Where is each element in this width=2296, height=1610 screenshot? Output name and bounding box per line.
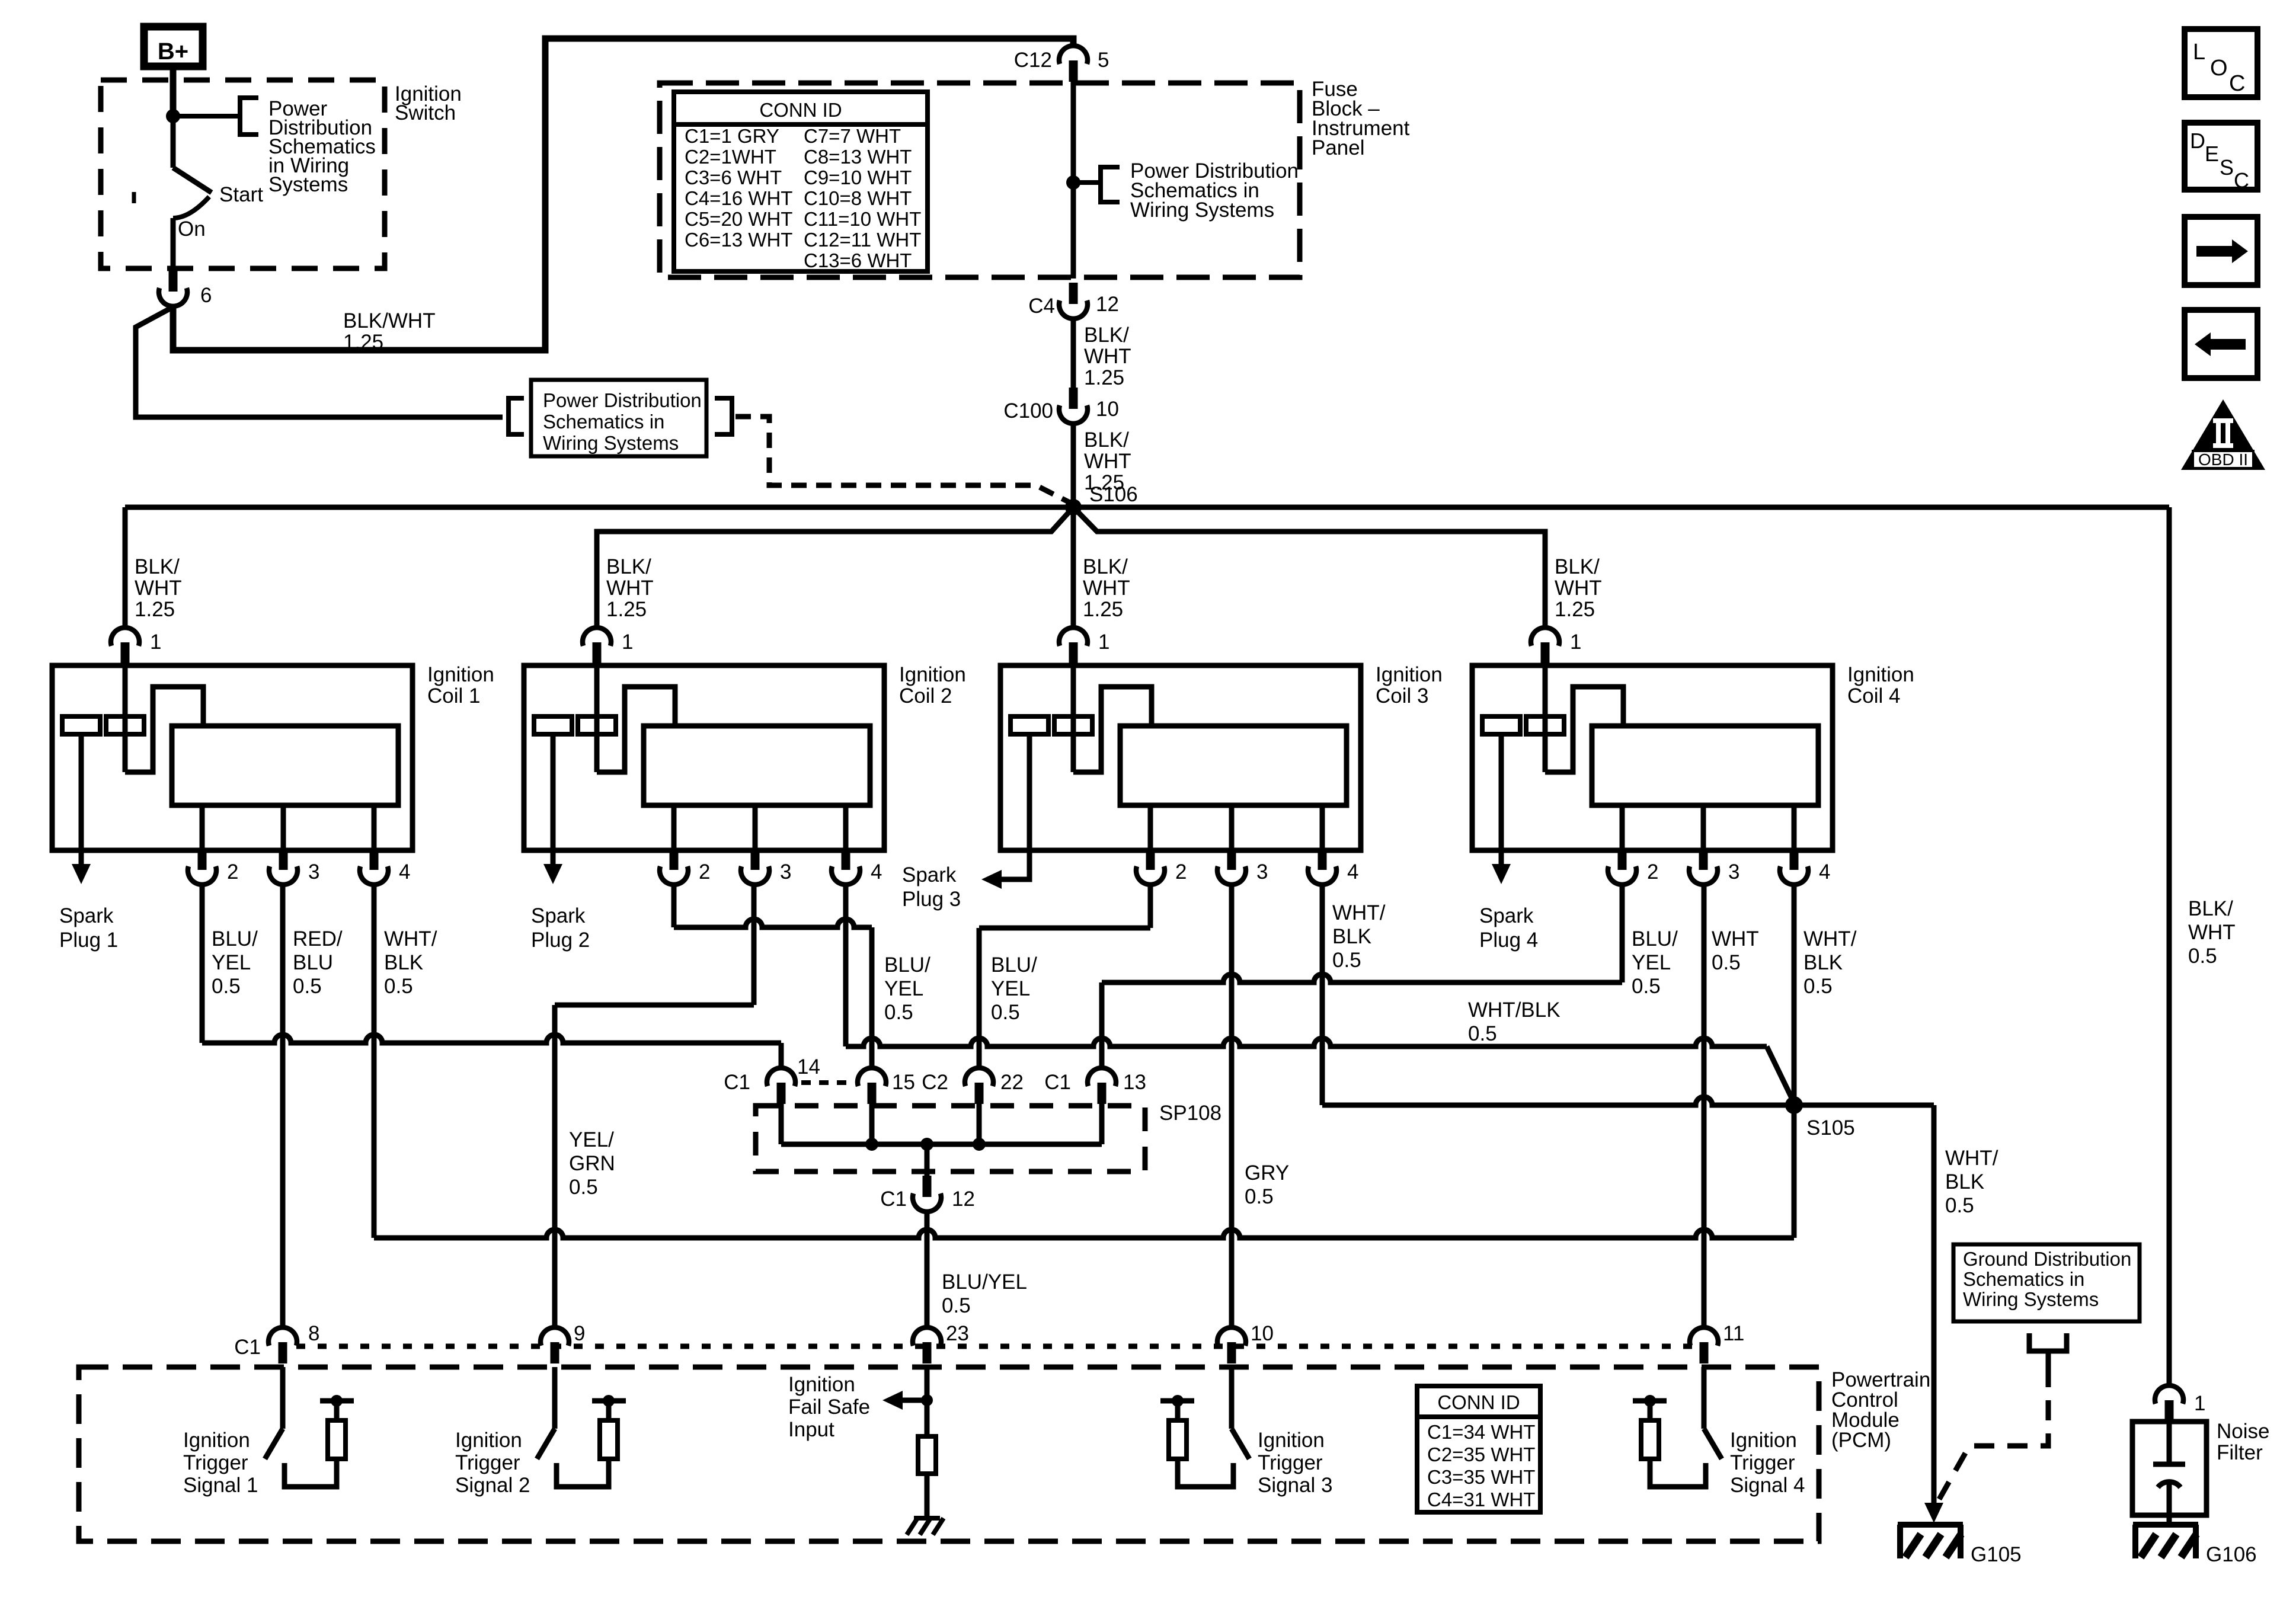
B+ battery terminal box: [144, 27, 203, 66]
svg-text:C6=13 WHT: C6=13 WHT: [685, 229, 792, 251]
svg-text:Ignition: Ignition: [1376, 663, 1443, 686]
connector C1 pin 13: [1098, 1083, 1107, 1104]
spark plug 3 arrow wire: [1002, 734, 1029, 879]
svg-text:Plug 4: Plug 4: [1479, 929, 1538, 952]
svg-text:0.5: 0.5: [991, 1001, 1020, 1024]
svg-text:Ignition: Ignition: [1847, 663, 1914, 686]
spark plug 2 arrow wire: [551, 734, 556, 864]
svg-text:2: 2: [699, 860, 710, 884]
ignition coil 3 primary connector rects: [1011, 716, 1048, 734]
wire coil1 pin2 down: [200, 885, 205, 1043]
wire coil2 pin2 down: [671, 885, 677, 927]
connector pin 3 ignition coil 2: [753, 805, 758, 850]
connector pin 4 ignition coil 1: [372, 805, 377, 850]
power distribution schematics box: [531, 380, 706, 456]
svg-text:G106: G106: [2206, 1543, 2257, 1566]
ignition trigger signal 2 resistor: [600, 1420, 618, 1459]
CONN ID table box: [674, 92, 928, 271]
svg-text:C1: C1: [1044, 1071, 1071, 1094]
ignition coil 3 pin1 internal wire: [1071, 665, 1076, 772]
ground distribution schematics box: [1953, 1244, 2140, 1321]
svg-text:C3=35 WHT: C3=35 WHT: [1427, 1466, 1535, 1488]
svg-text:0.5: 0.5: [1803, 975, 1833, 998]
svg-text:WHT/: WHT/: [1803, 927, 1857, 950]
svg-text:WHT: WHT: [1084, 450, 1131, 473]
wire S105 leg down: [1792, 1105, 1797, 1238]
wire junction to bracket (fuse block): [1073, 180, 1101, 185]
svg-text:1.25: 1.25: [135, 598, 175, 621]
svg-text:C: C: [2234, 168, 2249, 193]
svg-text:1: 1: [622, 630, 633, 654]
svg-text:C1: C1: [880, 1188, 907, 1211]
wire coil3 pin4 to S105: [1322, 1097, 1934, 1105]
spark plug 1 arrow wire: [79, 734, 84, 864]
fuse block dashed box: [660, 83, 1300, 277]
connector pin 2 ignition coil 1: [200, 805, 205, 850]
svg-text:C1=34 WHT: C1=34 WHT: [1427, 1421, 1535, 1443]
ignition trigger signal 2 switch: [552, 1367, 558, 1429]
svg-text:BLK/: BLK/: [1083, 555, 1128, 578]
svg-text:C4=16 WHT: C4=16 WHT: [685, 187, 792, 209]
svg-text:BLK/: BLK/: [1555, 555, 1600, 578]
svg-text:S105: S105: [1806, 1116, 1855, 1140]
svg-text:BLK/: BLK/: [606, 555, 651, 578]
svg-text:15: 15: [892, 1071, 915, 1094]
svg-text:OBD II: OBD II: [2198, 450, 2248, 469]
ignition coil 4 pin1 internal wire: [1543, 665, 1548, 772]
spark plug 4 arrow wire: [1499, 734, 1504, 864]
svg-text:On: On: [178, 217, 206, 241]
svg-text:Ignition: Ignition: [183, 1429, 250, 1452]
wire S105 to G105: [1932, 1105, 1937, 1513]
svg-text:Power Distribution: Power Distribution: [543, 389, 702, 411]
svg-text:Spark: Spark: [59, 904, 114, 927]
PCM CONN ID table box: [1417, 1386, 1540, 1512]
wire coil3 pin2 jog to C2 pin 22: [979, 926, 1150, 931]
wire trunk S106 down to ignition coil 3: [1071, 507, 1076, 627]
svg-text:4: 4: [871, 860, 882, 884]
wire SP108 tap down: [925, 1144, 930, 1176]
svg-text:22: 22: [1000, 1071, 1024, 1094]
svg-text:WHT: WHT: [1555, 577, 1602, 600]
node junction fuse block: [1066, 175, 1080, 190]
svg-text:(PCM): (PCM): [1831, 1429, 1891, 1452]
svg-text:Signal 4: Signal 4: [1730, 1474, 1805, 1497]
svg-text:C12=11 WHT: C12=11 WHT: [804, 229, 921, 251]
svg-text:Schematics in: Schematics in: [1963, 1268, 2084, 1290]
connector pin 23: [923, 1342, 932, 1363]
ignition switch dashed box: [101, 80, 385, 268]
connector pin 4 ignition coil 3: [1320, 805, 1325, 850]
node junction in ignition switch: [166, 109, 180, 123]
ignition switch arc to On: [173, 197, 209, 218]
bus wire coil1 pin4 WHT/BLK lower: [374, 1230, 1794, 1238]
svg-text:Switch: Switch: [395, 101, 456, 124]
wire coil3 pin4 down: [1320, 885, 1325, 1105]
wire coil1 pin3 to PCM pin 8 RED/BLU: [280, 885, 286, 1328]
wire coil3 pin3 GRY down to PCM pin 10: [1229, 885, 1235, 1328]
ground symbol PCM: [914, 1516, 940, 1521]
wire switch to connector 6: [171, 218, 176, 277]
wire coil4 pin4 down to S105: [1792, 885, 1797, 1105]
svg-text:3: 3: [1256, 860, 1268, 884]
connector pin 11: [1700, 1342, 1709, 1363]
node splice dots SP108: [865, 1138, 878, 1151]
svg-text:BLK/WHT: BLK/WHT: [343, 309, 436, 332]
connector pin 9: [551, 1342, 559, 1363]
svg-text:BLU/: BLU/: [884, 953, 930, 977]
svg-text:Filter: Filter: [2217, 1441, 2263, 1464]
svg-text:13: 13: [1123, 1071, 1146, 1094]
connector pin 15: [868, 1083, 877, 1104]
svg-text:C4=31 WHT: C4=31 WHT: [1427, 1489, 1535, 1510]
svg-text:C4: C4: [1028, 295, 1055, 318]
svg-text:BLK: BLK: [384, 951, 423, 974]
svg-text:S106: S106: [1089, 483, 1138, 506]
svg-text:Panel: Panel: [1312, 136, 1365, 159]
svg-text:0.5: 0.5: [1945, 1194, 1974, 1217]
ignition coil 3 winding block: [1120, 726, 1347, 805]
svg-text:Spark: Spark: [531, 904, 586, 927]
svg-text:YEL: YEL: [884, 977, 923, 1000]
ignition coil 2 box: [524, 665, 884, 850]
svg-text:Wiring Systems: Wiring Systems: [1130, 199, 1274, 222]
svg-text:WHT/BLK: WHT/BLK: [1468, 998, 1560, 1022]
svg-text:3: 3: [308, 860, 319, 884]
splice S105: [1785, 1096, 1803, 1114]
svg-text:YEL: YEL: [212, 951, 251, 974]
ignition coil 1 pin1 internal wire: [123, 665, 128, 772]
svg-text:C1: C1: [234, 1336, 261, 1359]
svg-text:WHT/: WHT/: [1945, 1147, 1998, 1170]
svg-text:Trigger: Trigger: [1730, 1451, 1795, 1474]
connector C100 pin 10: [1069, 388, 1078, 409]
svg-text:Ignition: Ignition: [788, 1373, 855, 1396]
dashed wire ground distribution to G105: [1939, 1367, 2048, 1499]
svg-text:0.5: 0.5: [212, 975, 241, 998]
bracket below ground distribution box: [2029, 1333, 2067, 1351]
svg-text:Wiring Systems: Wiring Systems: [543, 432, 679, 454]
svg-text:14: 14: [797, 1055, 820, 1078]
lower bus wire left from S106: [597, 507, 1073, 627]
ignition switch pole wire: [171, 116, 176, 168]
connector pin 3 ignition coil 3: [1229, 805, 1235, 850]
svg-text:C9=10 WHT: C9=10 WHT: [804, 167, 912, 188]
connector C4 pin 12: [1069, 283, 1078, 304]
ignition trigger signal 1 resistor: [328, 1420, 346, 1459]
PCM connector row dotted line: [296, 1344, 1704, 1349]
svg-text:C11=10 WHT: C11=10 WHT: [804, 208, 921, 230]
svg-text:Ignition: Ignition: [1730, 1429, 1797, 1452]
svg-text:BLK/: BLK/: [1084, 324, 1129, 347]
LOC badge box: [2185, 29, 2257, 97]
ignition coil 1 winding block: [172, 726, 398, 805]
OBD II triangle badge: [2181, 399, 2265, 470]
ignition coil 4 internal staircase wire: [1545, 687, 1623, 772]
wire connector 6 to fuse block C12: [173, 39, 1073, 350]
wire C12 to C4 inside fuse block: [1071, 82, 1076, 279]
wire coil4 pin2 down: [1620, 885, 1625, 982]
svg-text:CONN ID: CONN ID: [759, 99, 842, 121]
svg-text:G105: G105: [1971, 1543, 2022, 1566]
svg-text:CONN ID: CONN ID: [1437, 1391, 1520, 1413]
svg-text:3: 3: [1728, 860, 1739, 884]
svg-text:BLK: BLK: [1803, 951, 1843, 974]
svg-text:Signal 1: Signal 1: [183, 1474, 258, 1497]
svg-text:4: 4: [1819, 860, 1830, 884]
svg-text:WHT: WHT: [2188, 921, 2236, 944]
svg-text:C13=6 WHT: C13=6 WHT: [804, 249, 912, 271]
wire resistor to ground: [925, 1474, 930, 1518]
svg-text:GRN: GRN: [569, 1152, 615, 1175]
ground G105: [1898, 1522, 1963, 1528]
svg-text:BLK: BLK: [1332, 925, 1371, 948]
ignition coil 3 internal staircase wire: [1073, 687, 1152, 772]
back arrow badge box: [2185, 310, 2257, 378]
svg-text:0.5: 0.5: [384, 975, 413, 998]
svg-text:C7=7 WHT: C7=7 WHT: [804, 125, 901, 147]
wire YEL/GRN down to PCM pin 9: [552, 1005, 558, 1328]
ignition coil 2 winding block: [644, 726, 870, 805]
svg-text:Signal 3: Signal 3: [1258, 1474, 1332, 1497]
wire coil1 pin4 down: [372, 885, 377, 1238]
svg-text:2: 2: [227, 860, 238, 884]
svg-text:0.5: 0.5: [1632, 975, 1661, 998]
svg-text:0.5: 0.5: [569, 1176, 598, 1199]
ignition trigger signal 4 rail: [1648, 1401, 1653, 1420]
connector pin 1 noise filter: [2165, 1400, 2174, 1422]
ignition switch blade Start: [173, 168, 212, 193]
forward arrow badge box: [2185, 217, 2257, 285]
ignition trigger signal 2 rail: [606, 1401, 612, 1420]
svg-text:WHT: WHT: [135, 577, 182, 600]
svg-text:0.5: 0.5: [1468, 1022, 1497, 1045]
bus wire WHT/BLK to S105: [846, 1038, 1767, 1046]
svg-text:8: 8: [308, 1322, 319, 1345]
reference bracket right of power distribution box: [715, 398, 732, 434]
ignition coil 2 pin1 internal wire: [594, 665, 600, 772]
ignition trigger signal 3 rail: [1175, 1401, 1181, 1420]
svg-text:WHT: WHT: [606, 577, 654, 600]
svg-text:2: 2: [1175, 860, 1187, 884]
wire coil3 pin2 down: [1148, 885, 1153, 928]
svg-text:YEL: YEL: [1632, 951, 1671, 974]
svg-text:1.25: 1.25: [1555, 598, 1595, 621]
ground G106: [2133, 1522, 2198, 1528]
wire branch 1 down to ignition coil 1: [123, 507, 128, 627]
svg-text:0.5: 0.5: [942, 1294, 971, 1317]
svg-text:Input: Input: [788, 1418, 834, 1441]
svg-text:Wiring Systems: Wiring Systems: [1963, 1288, 2099, 1310]
ignition fail safe input wire: [925, 1367, 930, 1436]
wire coil2 pin3 jog left YEL/GRN: [555, 1003, 754, 1008]
svg-text:BLU/YEL: BLU/YEL: [942, 1270, 1027, 1294]
connector C2 pin 22: [975, 1083, 984, 1104]
svg-text:Trigger: Trigger: [1258, 1451, 1323, 1474]
svg-text:Plug 1: Plug 1: [59, 929, 118, 952]
svg-text:Noise: Noise: [2217, 1420, 2269, 1443]
svg-text:C10=8 WHT: C10=8 WHT: [804, 187, 912, 209]
svg-text:C100: C100: [1003, 399, 1053, 422]
connector pin 2 ignition coil 2: [671, 805, 677, 850]
wire coil4 pin3 WHT down to PCM pin 11: [1702, 885, 1707, 1328]
wire C4 to C100: [1071, 319, 1076, 388]
svg-text:Signal 2: Signal 2: [455, 1474, 530, 1497]
svg-text:0.5: 0.5: [2188, 945, 2217, 968]
svg-text:Ground Distribution: Ground Distribution: [1963, 1248, 2131, 1270]
svg-text:4: 4: [399, 860, 410, 884]
ignition trigger signal 4 resistor: [1641, 1420, 1659, 1459]
svg-text:1.25: 1.25: [1083, 598, 1123, 621]
SP108 dashed box: [756, 1106, 1145, 1172]
svg-text:GRY: GRY: [1245, 1161, 1289, 1185]
DESC badge box: [2185, 123, 2257, 190]
ignition coil 1 primary connector rects: [62, 716, 100, 734]
svg-text:10: 10: [1251, 1322, 1274, 1345]
lower bus wire right from S106: [1073, 507, 1545, 627]
svg-text:0.5: 0.5: [1245, 1185, 1274, 1208]
svg-text:BLU/: BLU/: [991, 953, 1037, 977]
svg-text:6: 6: [200, 284, 212, 307]
connector pin 4 ignition coil 2: [843, 805, 849, 850]
connector C1 pin 8: [279, 1342, 287, 1363]
svg-text:1: 1: [2194, 1392, 2205, 1415]
svg-text:BLU/: BLU/: [212, 927, 258, 950]
ignition coil 1 internal staircase wire: [125, 687, 203, 772]
svg-text:C3=6 WHT: C3=6 WHT: [685, 167, 782, 188]
svg-text:RED/: RED/: [293, 927, 343, 950]
ignition trigger signal 1 switch: [280, 1367, 286, 1429]
svg-text:C1=1 GRY: C1=1 GRY: [685, 125, 779, 147]
connector 6 ignition switch: [169, 270, 178, 292]
svg-text:WHT: WHT: [1084, 345, 1131, 368]
svg-text:BLK/: BLK/: [135, 555, 180, 578]
svg-text:Coil 2: Coil 2: [899, 684, 952, 708]
connector C12 pin 5: [1069, 60, 1078, 82]
ignition coil 2 internal staircase wire: [597, 687, 675, 772]
svg-text:Systems: Systems: [268, 173, 348, 196]
svg-text:L: L: [2193, 40, 2205, 65]
svg-text:Start: Start: [219, 183, 263, 206]
connector pin 1 ignition coil 1: [121, 642, 130, 664]
svg-text:1: 1: [1098, 630, 1109, 654]
svg-text:2: 2: [1647, 860, 1658, 884]
svg-text:BLK/: BLK/: [1084, 428, 1129, 452]
svg-text:10: 10: [1096, 398, 1119, 421]
svg-text:SP108: SP108: [1159, 1102, 1221, 1125]
SP108 internal splice wires: [779, 1103, 784, 1144]
wire coil2 pin4 down: [843, 885, 849, 1046]
svg-text:11: 11: [1723, 1322, 1744, 1345]
svg-text:YEL/: YEL/: [569, 1128, 614, 1151]
svg-text:C: C: [2229, 71, 2245, 96]
svg-text:Trigger: Trigger: [455, 1451, 520, 1474]
svg-text:Ignition: Ignition: [899, 663, 966, 686]
svg-text:YEL: YEL: [991, 977, 1030, 1000]
svg-text:Spark: Spark: [1479, 904, 1534, 927]
ignition fail safe resistor: [918, 1436, 936, 1474]
ignition coil 4 winding block: [1592, 726, 1818, 805]
svg-text:C8=13 WHT: C8=13 WHT: [804, 146, 912, 168]
svg-text:1: 1: [1570, 630, 1581, 654]
svg-text:C1: C1: [724, 1071, 750, 1094]
svg-text:Ignition: Ignition: [1258, 1429, 1325, 1452]
svg-text:WHT/: WHT/: [1332, 901, 1386, 924]
svg-text:S: S: [2220, 155, 2234, 180]
svg-text:WHT: WHT: [1083, 577, 1130, 600]
svg-text:Coil 3: Coil 3: [1376, 684, 1428, 708]
wire coil2 pin3 down: [752, 885, 757, 1005]
connector pin 3 ignition coil 1: [281, 805, 286, 850]
svg-text:Plug 2: Plug 2: [531, 929, 590, 952]
svg-text:Schematics in: Schematics in: [543, 411, 664, 433]
connector pin 10: [1227, 1342, 1236, 1363]
svg-text:Ignition: Ignition: [427, 663, 494, 686]
svg-text:1.25: 1.25: [606, 598, 647, 621]
reference bracket left of power distribution box: [509, 398, 524, 434]
svg-text:Fail Safe: Fail Safe: [788, 1395, 870, 1419]
svg-text:WHT/: WHT/: [384, 927, 437, 950]
svg-text:O: O: [2210, 56, 2228, 81]
connector C1 pin 14: [777, 1083, 786, 1104]
svg-text:Ignition: Ignition: [455, 1429, 522, 1452]
ignition coil 2 primary connector rects: [534, 716, 572, 734]
connector C1 pin 12: [923, 1176, 932, 1197]
ignition coil 4 box: [1472, 665, 1833, 850]
wire coil2 pin2 jog to SP108 pin 15: [674, 919, 872, 927]
svg-text:B+: B+: [158, 39, 188, 65]
ignition coil 3 box: [1000, 665, 1361, 850]
svg-text:23: 23: [946, 1322, 969, 1345]
noise filter box: [2132, 1422, 2207, 1515]
wire coil4 pin2 jog to C1 pin 13: [1102, 974, 1622, 982]
svg-text:BLU/: BLU/: [1632, 927, 1678, 950]
wire C1-12 to PCM pin 23 BLU/YEL: [925, 1212, 930, 1328]
dashed wire power distribution to S106: [736, 417, 1070, 502]
svg-text:C2=35 WHT: C2=35 WHT: [1427, 1443, 1535, 1465]
ignition coil 4 primary connector rects: [1482, 716, 1520, 734]
svg-text:Plug 3: Plug 3: [902, 888, 961, 911]
bus wire coil1 pin2 to SP108 pin 14: [202, 1035, 781, 1043]
svg-text:12: 12: [1096, 293, 1119, 316]
svg-text:0.5: 0.5: [1712, 951, 1741, 974]
reference bracket ignition switch: [240, 98, 258, 135]
dashed jumper pin14 to pin15: [801, 1080, 853, 1085]
connector pin 1 ignition coil 4: [1541, 642, 1550, 664]
connector pin 2 ignition coil 3: [1148, 805, 1153, 850]
svg-text:Spark: Spark: [902, 863, 957, 886]
PCM dashed box: [79, 1367, 1819, 1541]
svg-text:BLK/: BLK/: [2188, 897, 2233, 920]
svg-text:0.5: 0.5: [884, 1001, 913, 1024]
ignition trigger signal 1 rail: [334, 1401, 340, 1420]
svg-text:WHT: WHT: [1712, 927, 1759, 950]
svg-text:3: 3: [780, 860, 791, 884]
wire B+ to ignition switch: [170, 66, 177, 116]
wire junction to reference bracket: [173, 114, 240, 119]
svg-text:C2=1WHT: C2=1WHT: [685, 146, 776, 168]
svg-text:1.25: 1.25: [1084, 366, 1124, 389]
ignition trigger signal 4 switch: [1702, 1367, 1707, 1429]
noise filter capacitor: [2167, 1422, 2172, 1464]
connector pin 3 ignition coil 4: [1701, 805, 1706, 850]
switch position tick: [132, 192, 136, 203]
svg-text:Coil 1: Coil 1: [427, 684, 480, 708]
svg-text:0.5: 0.5: [293, 975, 322, 998]
ignition trigger signal 3 switch: [1229, 1367, 1235, 1429]
reference bracket fuse block: [1101, 167, 1120, 202]
upper bus wire from S106: [125, 505, 2169, 510]
